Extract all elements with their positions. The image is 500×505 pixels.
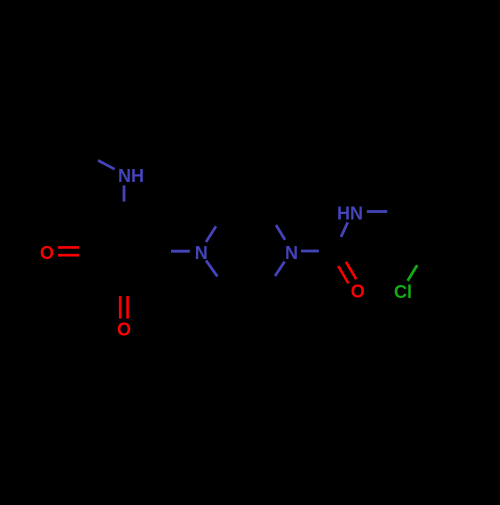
bond N1-C(piperazine bottom-left, down-right stub) (206, 260, 217, 276)
double bond C=O bottom (two vertical red lines) (119, 296, 122, 319)
double bond C=O left (two horizontal red lines) (58, 246, 79, 249)
bond N4-C(piperazine bottom-right, down-left stub) (275, 262, 285, 276)
bond C2(squarate)-N1 (horizontal stub left of N1) (171, 250, 190, 253)
bond HN-C(carboxamide) down-left stub (341, 222, 348, 237)
bond HN-C1(phenyl) horizontal stub right of HN (367, 210, 387, 213)
bond N-C3 (vertical stub below NH) (123, 185, 126, 201)
double bond C=O amide (two diagonal red lines) (338, 266, 348, 283)
svg-text:Cl: Cl (394, 282, 412, 302)
bond Cl-C2(phenyl) up-right green stub (408, 265, 418, 281)
svg-text:NH: NH (118, 166, 144, 186)
svg-text:N: N (195, 243, 208, 263)
bond CH3-N (half near NH, methyl stub) (98, 160, 115, 169)
bond N4-C(piperazine top-right, up-left stub) (276, 225, 285, 240)
svg-text:N: N (285, 243, 298, 263)
svg-text:O: O (40, 243, 54, 263)
bond N4-C(carboxamide) horizontal stub right of N4 (301, 250, 319, 253)
svg-text:O: O (117, 320, 131, 340)
svg-text:O: O (351, 282, 365, 302)
bond N1-C(piperazine top-left, up-right stub) (206, 226, 216, 242)
svg-text:HN: HN (337, 203, 363, 223)
